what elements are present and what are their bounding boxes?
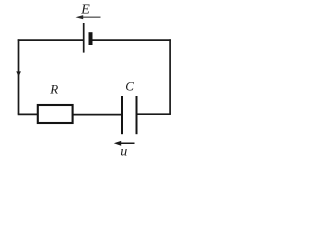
resistor R (box) — [38, 105, 73, 123]
wire bottom-middle segment (resistor R to capacitor C) — [73, 114, 122, 116]
capacitor C: right plate — [136, 96, 138, 134]
svg-text:u: u — [120, 144, 127, 159]
wire bottom-left segment (left rail to resistor R) — [18, 113, 38, 115]
battery cell E: short thick negative plate — [89, 32, 93, 45]
svg-text:C: C — [125, 79, 134, 94]
current direction arrowhead on left rail (pointing down) — [16, 71, 21, 76]
voltage arrow u across capacitor (pointing left) — [114, 141, 135, 146]
emf direction arrow under label E (pointing left) — [76, 15, 101, 19]
svg-text:R: R — [49, 81, 58, 96]
svg-text:E: E — [80, 3, 90, 18]
wire bottom-right segment (capacitor C to right rail) — [137, 113, 171, 115]
wire top-right segment (battery to right rail) — [92, 39, 171, 41]
capacitor C: left plate — [121, 96, 123, 134]
wire left rail — [18, 39, 20, 114]
battery cell E: long positive plate — [83, 23, 85, 53]
wire top-left segment (node from left rail to battery) — [18, 39, 84, 41]
wire right rail — [169, 39, 171, 114]
